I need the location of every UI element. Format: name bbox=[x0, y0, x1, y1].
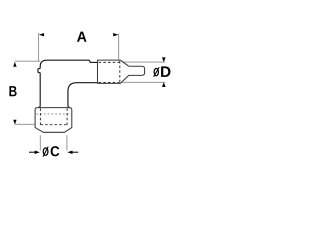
extension line A left vertical bbox=[38, 33, 40, 61]
hidden edge dashed: skirt bore bottom bbox=[40, 124, 67, 126]
dimension B arrow bottom bbox=[13, 120, 16, 125]
extension line C right vertical bbox=[66, 135, 68, 150]
label øC: letter C bbox=[51, 146, 60, 156]
dimension B arrow top bbox=[13, 62, 16, 67]
label øD: letter D bbox=[161, 66, 170, 77]
extension line B top horizontal bbox=[15, 60, 41, 62]
label A bbox=[77, 32, 87, 42]
extension line C left vertical bbox=[39, 135, 41, 150]
hidden edge dashed: skirt internal step bbox=[36, 113, 71, 115]
dimension D arrow top bbox=[162, 57, 166, 62]
extension line D top horizontal bbox=[122, 61, 165, 63]
hidden edge dashed: skirt bore right bbox=[66, 108, 68, 124]
extension line A right vertical bbox=[118, 33, 120, 60]
hidden edge dashed: body nose end vertical bbox=[119, 61, 121, 83]
label øD: diameter symbol bbox=[154, 68, 158, 75]
hidden edge dashed: body nose bottom bbox=[99, 82, 120, 84]
dimension A arrow left bbox=[39, 33, 44, 36]
cap body inner corner fillet and right edge bbox=[68, 83, 98, 108]
extension line B bottom horizontal bbox=[15, 123, 36, 125]
cap body outline (elbow) bbox=[38, 60, 98, 107]
hidden edge dashed: skirt bore left bbox=[39, 108, 41, 124]
plug boot skirt (bottom) bbox=[35, 108, 72, 133]
dimension C arrow right with tail bbox=[67, 151, 72, 155]
dimension D arrow bottom bbox=[162, 82, 166, 87]
dimension C arrow left with tail bbox=[35, 151, 40, 155]
hidden edge dashed: body nose top bbox=[99, 61, 120, 63]
dimension A arrow right bbox=[113, 33, 118, 36]
label øC: diameter symbol bbox=[43, 148, 48, 156]
extension line D bottom horizontal bbox=[122, 81, 165, 83]
label B bbox=[9, 86, 16, 96]
rubber boot (terminal end, right) bbox=[98, 60, 145, 83]
